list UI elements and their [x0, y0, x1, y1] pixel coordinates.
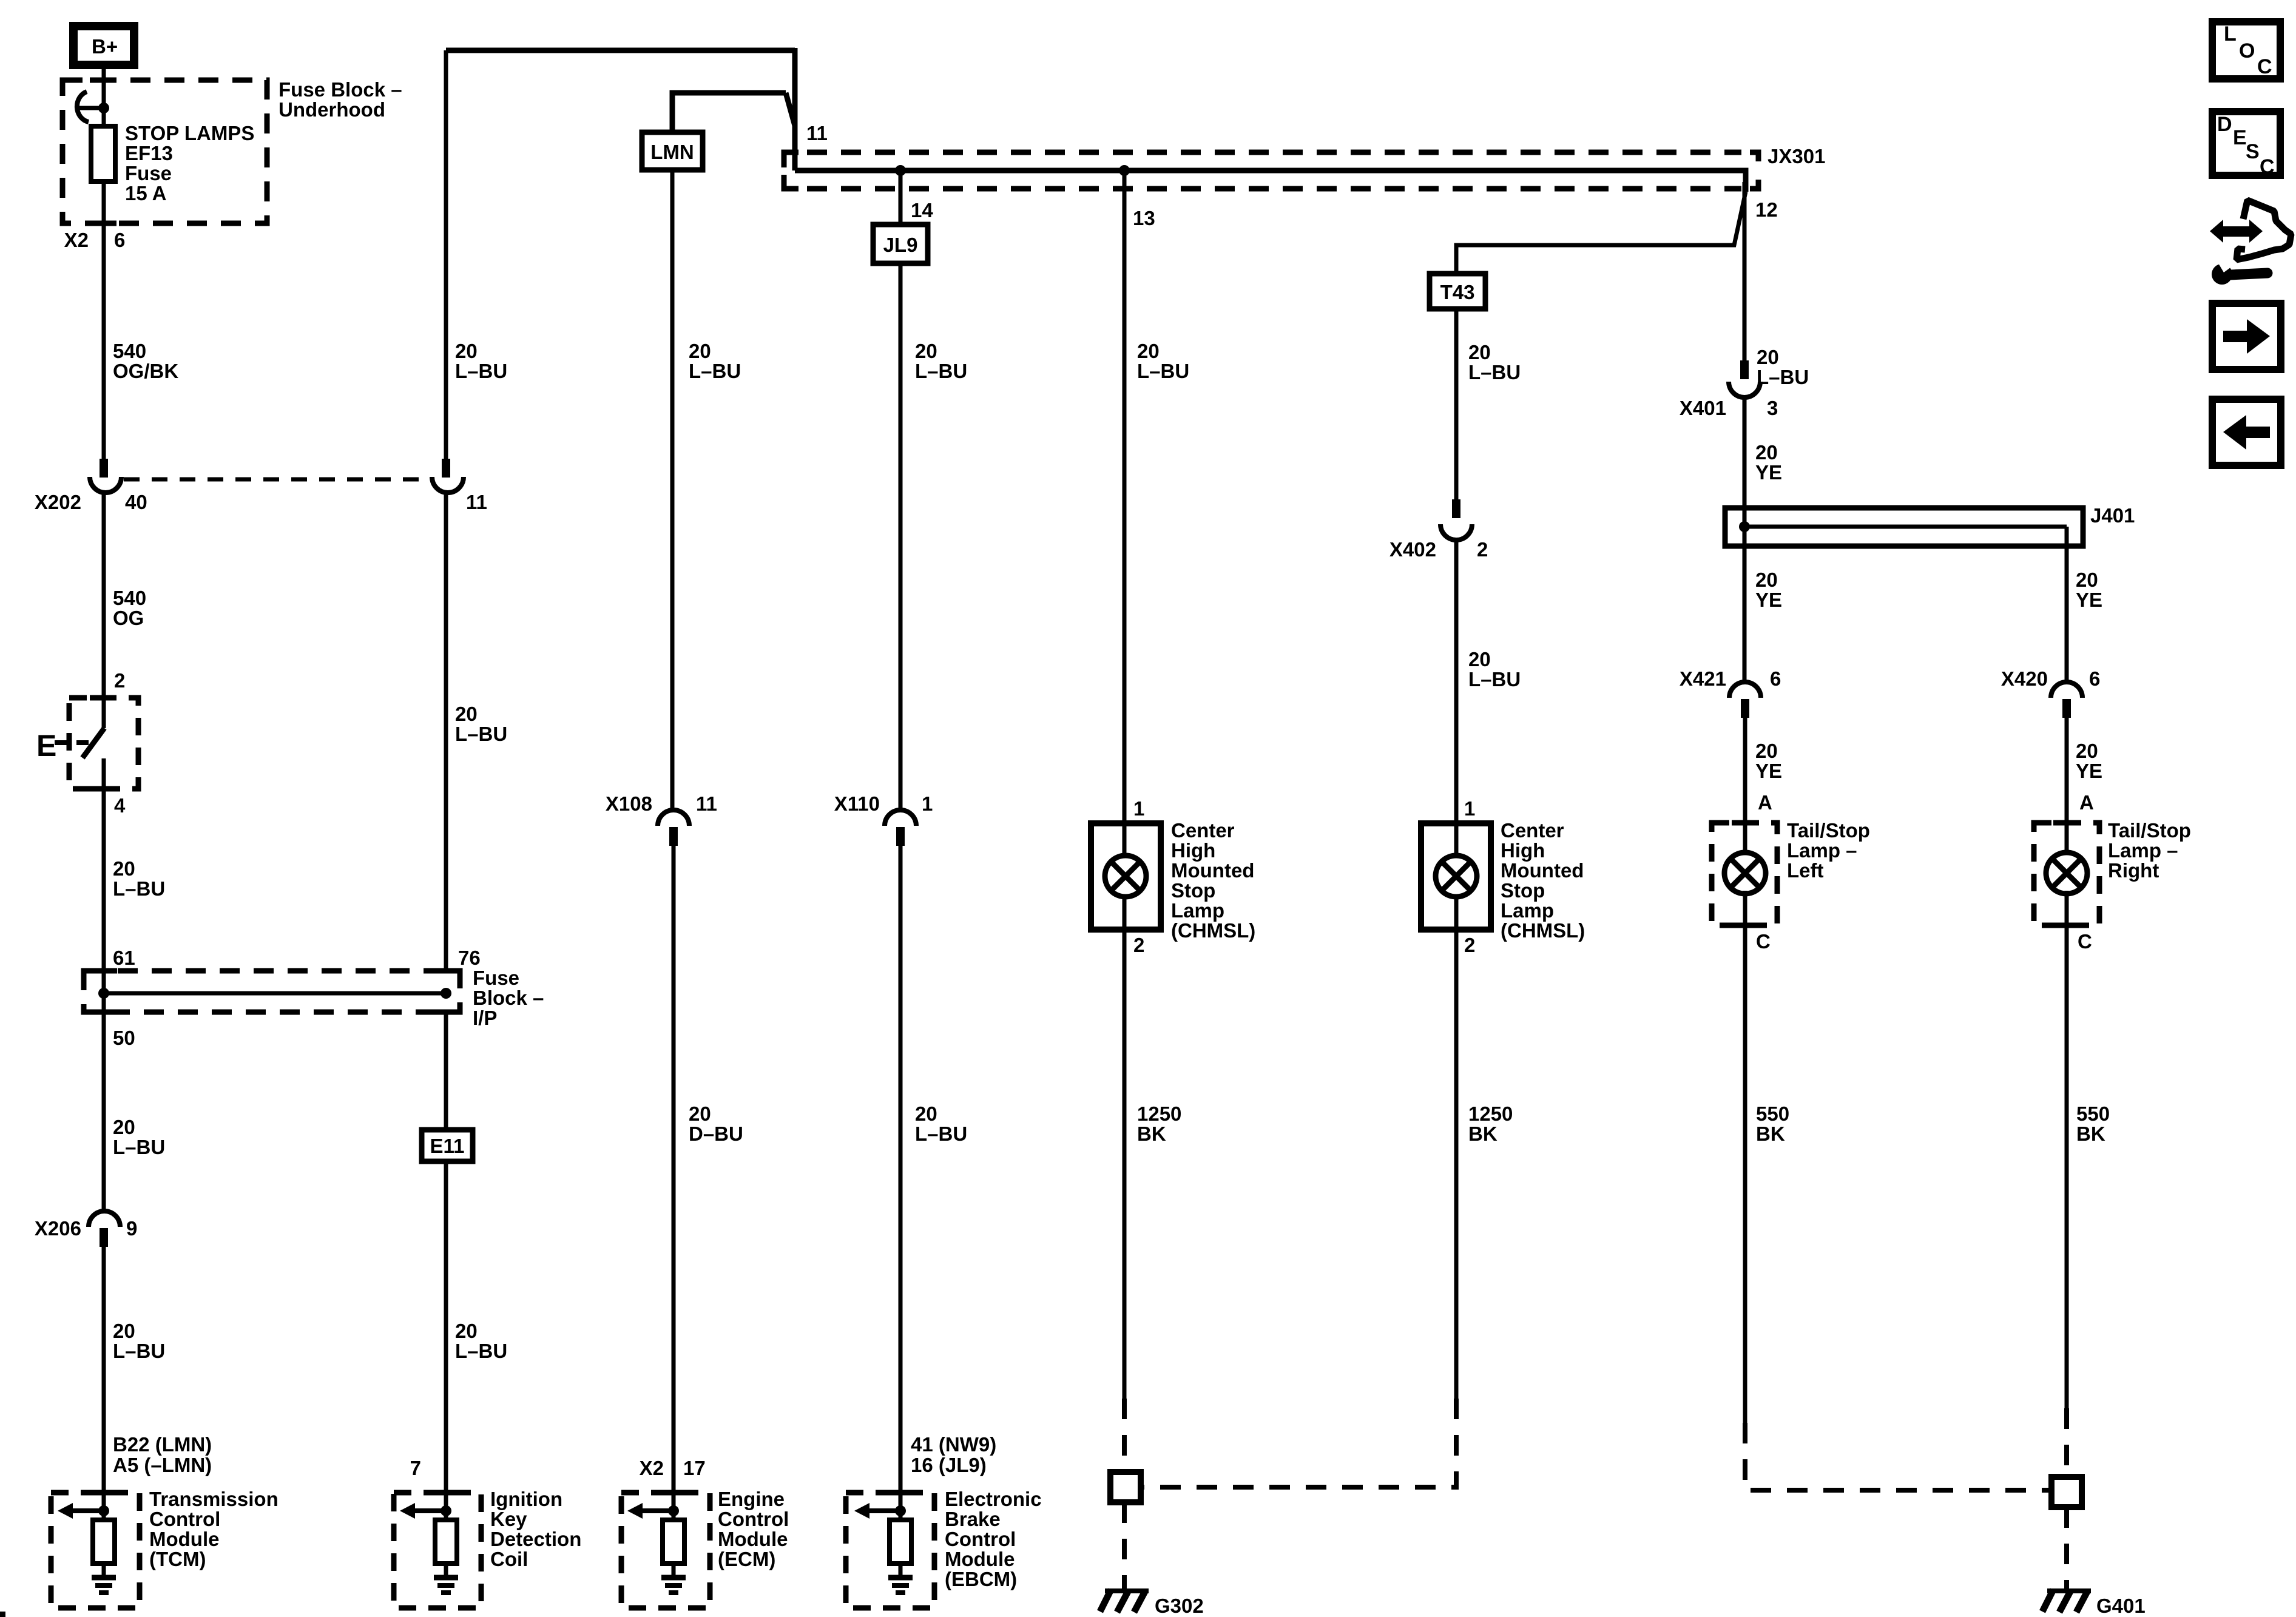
svg-text:15 A: 15 A — [125, 182, 166, 204]
dashed ground lead below G302 — [1122, 1502, 1127, 1592]
wire through CHMSL right — [1454, 823, 1459, 930]
svg-text:YE: YE — [2076, 760, 2102, 782]
svg-text:20: 20 — [1137, 340, 1160, 362]
svg-text:X110: X110 — [834, 792, 880, 815]
svg-text:C: C — [1756, 930, 1771, 953]
svg-text:20: 20 — [1468, 341, 1491, 363]
svg-text:Electronic: Electronic — [945, 1488, 1042, 1510]
svg-text:(EBCM): (EBCM) — [945, 1568, 1017, 1590]
svg-text:Lamp –: Lamp – — [2108, 839, 2178, 862]
svg-text:X402: X402 — [1389, 538, 1436, 561]
TCM input arrow — [58, 1503, 104, 1519]
wire w1 through I/P — [102, 971, 106, 1012]
svg-text:(CHMSL): (CHMSL) — [1171, 919, 1255, 942]
resistor EBCM — [890, 1511, 911, 1576]
svg-text:B+: B+ — [92, 35, 118, 58]
wire bus corner down into JX301 — [792, 48, 798, 170]
svg-text:Module: Module — [945, 1548, 1015, 1570]
svg-text:I/P: I/P — [473, 1007, 497, 1029]
wire I/P to X206 — [102, 1012, 106, 1212]
coil input arrow — [400, 1503, 446, 1519]
svg-text:Mounted: Mounted — [1501, 859, 1584, 882]
svg-text:6: 6 — [1770, 667, 1781, 690]
wire X110 to EBCM — [899, 846, 903, 1511]
svg-text:1250: 1250 — [1137, 1102, 1181, 1125]
node on B+ wire — [98, 103, 109, 113]
connector JL9 — [873, 224, 928, 263]
svg-text:JX301: JX301 — [1768, 145, 1825, 167]
ECM input arrow — [627, 1503, 674, 1519]
svg-text:20: 20 — [915, 340, 937, 362]
svg-text:L–BU: L–BU — [113, 877, 165, 900]
svg-text:JL9: JL9 — [883, 234, 918, 256]
svg-text:20: 20 — [1757, 346, 1779, 368]
svg-text:Coil: Coil — [490, 1548, 528, 1570]
svg-text:X421: X421 — [1680, 667, 1726, 690]
svg-text:50: 50 — [113, 1027, 135, 1049]
svg-text:Ignition: Ignition — [490, 1488, 562, 1510]
svg-text:540: 540 — [113, 587, 146, 609]
lamp CHMSL left — [1105, 856, 1146, 897]
svg-text:A5 (–LMN): A5 (–LMN) — [113, 1454, 212, 1476]
svg-text:E11: E11 — [430, 1135, 465, 1157]
svg-text:Mounted: Mounted — [1171, 859, 1254, 882]
switch blade — [83, 728, 104, 758]
svg-text:11: 11 — [806, 122, 828, 144]
svg-text:High: High — [1501, 839, 1545, 862]
wire X108 to ECM — [672, 846, 676, 1511]
svg-text:20: 20 — [1755, 569, 1778, 591]
svg-text:X401: X401 — [1680, 397, 1726, 419]
svg-text:12: 12 — [1755, 198, 1778, 221]
svg-text:17: 17 — [683, 1457, 706, 1479]
svg-text:Key: Key — [490, 1508, 527, 1530]
svg-text:20: 20 — [2076, 740, 2098, 762]
svg-text:G401: G401 — [2096, 1595, 2146, 1617]
svg-text:X420: X420 — [2001, 667, 2048, 690]
svg-text:61: 61 — [113, 947, 135, 969]
svg-text:Brake: Brake — [945, 1508, 1001, 1530]
connector X401 pin 3 — [1729, 360, 1760, 397]
connector X108 pin 11 — [658, 810, 689, 846]
svg-text:A: A — [2079, 791, 2094, 814]
connector X110 pin 1 — [885, 810, 916, 846]
svg-text:20: 20 — [1755, 441, 1778, 464]
dashed connector line X202 row — [124, 478, 431, 482]
wire JL9 to X110 — [899, 263, 903, 811]
wire fuse to X202 — [102, 181, 106, 460]
svg-text:S: S — [2246, 140, 2260, 163]
svg-text:20: 20 — [113, 1116, 135, 1138]
svg-text:OG: OG — [113, 607, 144, 629]
svg-text:Fuse: Fuse — [473, 967, 519, 989]
node 76 — [441, 988, 451, 999]
EBCM dashed box — [846, 1493, 934, 1608]
svg-text:20: 20 — [1755, 740, 1778, 762]
svg-text:X2: X2 — [640, 1457, 664, 1479]
wire X421 to tail lamp left — [1743, 718, 1747, 856]
wire slant into bus corner — [786, 93, 795, 126]
svg-text:YE: YE — [1755, 589, 1782, 611]
Fuse Block - I/P dashed box — [84, 971, 460, 1012]
Ignition Key Detection Coil dashed box — [394, 1493, 481, 1608]
wire top bus horizontal — [446, 48, 795, 53]
svg-text:L–BU: L–BU — [455, 1340, 507, 1362]
svg-text:X108: X108 — [606, 792, 652, 815]
node JX301 pin 14 — [895, 165, 906, 176]
ground splice box G401 — [2051, 1477, 2082, 1507]
icon left arrow box — [2212, 399, 2281, 465]
connector T43 — [1430, 274, 1485, 309]
svg-text:76: 76 — [458, 947, 481, 969]
wire through CHMSL left — [1123, 823, 1127, 930]
svg-text:2: 2 — [114, 669, 125, 692]
svg-text:14: 14 — [911, 199, 933, 221]
svg-text:Left: Left — [1787, 859, 1824, 882]
svg-text:BK: BK — [1756, 1122, 1785, 1145]
svg-text:Control: Control — [945, 1528, 1016, 1550]
svg-text:L–BU: L–BU — [455, 360, 507, 382]
dashed ground lead right CHMSL — [1144, 1399, 1456, 1487]
harness JX301 dashed box — [784, 152, 1758, 189]
icon service wrench — [2212, 257, 2267, 285]
node TCM — [98, 1505, 109, 1516]
wire w8 J401 to X420 — [2065, 546, 2069, 683]
svg-text:L–BU: L–BU — [915, 1122, 967, 1145]
svg-text:20: 20 — [455, 340, 478, 362]
svg-text:E: E — [2233, 126, 2247, 149]
ground G401 — [2042, 1590, 2091, 1612]
svg-text:Stop: Stop — [1501, 879, 1545, 902]
power feed B+ — [73, 26, 134, 65]
wire I/P to E11 — [444, 1012, 448, 1130]
svg-text:J401: J401 — [2090, 504, 2135, 527]
svg-text:Lamp: Lamp — [1501, 899, 1554, 922]
svg-text:20: 20 — [455, 703, 478, 725]
tail/stop lamp right dashed box — [2034, 823, 2099, 925]
wire hook to node — [78, 106, 104, 110]
svg-text:Module: Module — [718, 1528, 788, 1550]
svg-text:20: 20 — [915, 1102, 937, 1125]
node 61 — [98, 988, 109, 999]
wire CHMSL left to ground run — [1123, 930, 1127, 1399]
svg-text:Fuse Block –: Fuse Block – — [279, 78, 402, 101]
svg-text:STOP LAMPS: STOP LAMPS — [125, 122, 254, 144]
svg-text:Transmission: Transmission — [149, 1488, 279, 1510]
node coil — [441, 1505, 451, 1516]
svg-text:540: 540 — [113, 340, 146, 362]
svg-text:L–BU: L–BU — [113, 1136, 165, 1158]
node ECM — [668, 1505, 679, 1516]
resistor TCM — [93, 1511, 115, 1576]
svg-text:Right: Right — [2108, 859, 2159, 882]
svg-text:13: 13 — [1133, 207, 1155, 229]
svg-text:L–BU: L–BU — [1757, 366, 1809, 388]
bus bar hook — [77, 92, 89, 122]
svg-text:G302: G302 — [1155, 1595, 1204, 1617]
svg-text:11: 11 — [696, 792, 717, 815]
wire B+ to fuse block — [102, 69, 106, 126]
svg-text:20: 20 — [689, 340, 711, 362]
dashed ground lead left CHMSL — [1122, 1399, 1127, 1472]
wire w5 down from JX301 — [1123, 170, 1127, 823]
wire T43 to X402 — [1454, 309, 1459, 501]
svg-text:Detection: Detection — [490, 1528, 581, 1550]
svg-text:16 (JL9): 16 (JL9) — [911, 1454, 987, 1476]
wire LMN branch top — [672, 93, 786, 132]
svg-text:OG/BK: OG/BK — [113, 360, 178, 382]
wire w4 down from JX301 — [899, 170, 903, 224]
svg-text:6: 6 — [114, 229, 125, 251]
connector X421 pin 6 — [1729, 682, 1761, 718]
Fuse Block - Underhood dashed box — [62, 80, 267, 223]
svg-text:Tail/Stop: Tail/Stop — [1787, 819, 1870, 842]
ground TCM internal — [92, 1578, 116, 1593]
svg-text:550: 550 — [1756, 1102, 1789, 1125]
svg-text:2: 2 — [1477, 538, 1488, 561]
svg-text:(TCM): (TCM) — [149, 1548, 206, 1570]
svg-text:L–BU: L–BU — [455, 723, 507, 745]
svg-text:3: 3 — [1767, 397, 1778, 419]
svg-text:O: O — [2239, 39, 2255, 62]
svg-text:20: 20 — [689, 1102, 711, 1125]
icon DESC box — [2212, 112, 2280, 178]
wire inside JX301 — [795, 170, 1746, 192]
svg-text:41 (NW9): 41 (NW9) — [911, 1433, 996, 1456]
svg-text:(ECM): (ECM) — [718, 1548, 775, 1570]
connector X420 pin 6 — [2051, 682, 2082, 718]
svg-text:LMN: LMN — [650, 141, 694, 163]
wire w2 top corner down to connector 11 — [444, 50, 448, 460]
wire tail lamp right down — [2065, 891, 2069, 1408]
splice pack J401 — [1725, 508, 2083, 546]
svg-text:YE: YE — [1755, 461, 1782, 484]
wire CHMSL right to ground run — [1454, 930, 1459, 1399]
node JX301 pin 13 — [1119, 165, 1130, 176]
svg-text:4: 4 — [114, 794, 126, 817]
svg-text:Center: Center — [1171, 819, 1235, 842]
lamp tail/stop right — [2046, 852, 2087, 894]
svg-text:YE: YE — [1755, 760, 1782, 782]
lamp tail/stop left — [1724, 852, 1766, 894]
svg-text:YE: YE — [2076, 589, 2102, 611]
TCM dashed box — [51, 1493, 140, 1608]
svg-text:20: 20 — [113, 857, 135, 880]
stop lamp switch dashed box — [69, 698, 138, 789]
svg-text:BK: BK — [1137, 1122, 1166, 1145]
connector X206 pin 9 — [89, 1211, 120, 1247]
svg-text:L–BU: L–BU — [1137, 360, 1189, 382]
svg-text:7: 7 — [410, 1457, 421, 1479]
svg-text:L–BU: L–BU — [689, 360, 741, 382]
lamp CHMSL right — [1436, 856, 1477, 897]
svg-text:D–BU: D–BU — [689, 1122, 743, 1145]
svg-text:1: 1 — [1464, 797, 1475, 820]
svg-text:Underhood: Underhood — [279, 98, 385, 121]
svg-text:D: D — [2217, 113, 2232, 136]
tail/stop lamp left dashed box — [1712, 823, 1777, 925]
wire inside fuse block I/P — [104, 991, 446, 996]
svg-text:Engine: Engine — [718, 1488, 785, 1510]
svg-text:BK: BK — [1468, 1122, 1497, 1145]
resistor coil — [435, 1511, 457, 1576]
svg-text:20: 20 — [1468, 648, 1491, 670]
svg-text:L–BU: L–BU — [1468, 668, 1521, 690]
ground splice box G302 — [1110, 1472, 1141, 1502]
svg-text:20: 20 — [113, 1320, 135, 1342]
svg-text:High: High — [1171, 839, 1215, 862]
svg-text:Center: Center — [1501, 819, 1564, 842]
wire E11 to coil — [444, 1161, 448, 1511]
connector X202 pin 40 — [90, 459, 121, 493]
svg-text:X2: X2 — [64, 229, 89, 251]
svg-text:X202: X202 — [35, 491, 81, 513]
connector pin 11 (X202 row) — [432, 459, 464, 493]
svg-text:L–BU: L–BU — [1468, 361, 1521, 383]
svg-text:550: 550 — [2076, 1102, 2110, 1125]
svg-text:Lamp –: Lamp – — [1787, 839, 1857, 862]
svg-text:1250: 1250 — [1468, 1102, 1513, 1125]
icon service double arrow — [2210, 220, 2263, 243]
svg-text:20: 20 — [2076, 569, 2098, 591]
svg-text:9: 9 — [126, 1217, 137, 1240]
wire connector 11 to I/P — [444, 493, 448, 971]
dashed ground lead left tail lamp — [1745, 1423, 2051, 1490]
svg-text:B22 (LMN): B22 (LMN) — [113, 1433, 212, 1456]
ground coil internal — [434, 1578, 458, 1593]
svg-text:L–BU: L–BU — [113, 1340, 165, 1362]
svg-text:X206: X206 — [35, 1217, 81, 1240]
connector X402 pin 2 — [1440, 499, 1472, 540]
svg-text:2: 2 — [1464, 934, 1475, 956]
wire tail lamp left down — [1743, 891, 1747, 1423]
svg-text:BK: BK — [2076, 1122, 2105, 1145]
wire w7 JX301 to X401 — [1743, 182, 1747, 360]
CHMSL right lamp box — [1421, 823, 1491, 930]
svg-text:E: E — [36, 729, 56, 763]
wire LMN to X108 — [670, 170, 675, 811]
svg-text:Control: Control — [149, 1508, 220, 1530]
ground G302 — [1100, 1590, 1149, 1612]
wire X401 to J401 — [1743, 397, 1747, 508]
svg-text:L–BU: L–BU — [915, 360, 967, 382]
node EBCM — [895, 1505, 906, 1516]
ECM dashed box — [621, 1493, 710, 1608]
svg-text:C: C — [2078, 930, 2092, 953]
svg-text:Module: Module — [149, 1528, 219, 1550]
svg-text:20: 20 — [455, 1320, 478, 1342]
wire X402 to CHMSL right — [1454, 540, 1459, 823]
svg-text:C: C — [2257, 55, 2272, 78]
connector E11 — [422, 1130, 473, 1161]
icon LOC box — [2212, 22, 2280, 79]
svg-text:Block –: Block – — [473, 987, 544, 1009]
svg-text:C: C — [2260, 155, 2275, 178]
svg-text:L: L — [2224, 22, 2237, 46]
svg-text:Control: Control — [718, 1508, 789, 1530]
svg-text:1: 1 — [1133, 797, 1144, 820]
svg-text:1: 1 — [922, 792, 933, 815]
svg-text:Tail/Stop: Tail/Stop — [2108, 819, 2191, 842]
fuse EF13 — [91, 126, 115, 181]
wire X206 to TCM — [102, 1247, 106, 1511]
svg-text:(CHMSL): (CHMSL) — [1501, 919, 1585, 942]
ground EBCM internal — [888, 1578, 913, 1593]
svg-text:11: 11 — [466, 491, 487, 513]
ground ECM internal — [661, 1578, 686, 1593]
wire X202 to switch — [102, 493, 106, 728]
page artifact dot — [0, 1612, 5, 1617]
svg-text:EF13: EF13 — [125, 142, 173, 164]
svg-text:A: A — [1758, 791, 1772, 814]
icon right arrow box — [2212, 303, 2281, 370]
wire switch lower contact — [102, 758, 106, 971]
wire branch to T43 — [1456, 192, 1746, 274]
CHMSL left lamp box — [1091, 823, 1161, 930]
svg-text:Lamp: Lamp — [1171, 899, 1224, 922]
svg-text:40: 40 — [125, 491, 147, 513]
connector LMN — [642, 132, 703, 170]
svg-text:2: 2 — [1133, 934, 1144, 956]
icon service part outline — [2237, 200, 2291, 260]
dashed ground lead below G401 — [2064, 1507, 2069, 1590]
svg-text:Stop: Stop — [1171, 879, 1215, 902]
svg-text:T43: T43 — [1440, 281, 1475, 303]
resistor ECM — [663, 1511, 684, 1576]
wire J401 to X421 — [1743, 546, 1747, 683]
dashed line E to switch — [55, 740, 97, 745]
wire X420 to tail lamp right — [2065, 718, 2069, 856]
dashed ground lead right tail lamp — [2064, 1408, 2069, 1477]
svg-text:6: 6 — [2089, 667, 2100, 690]
svg-text:Fuse: Fuse — [125, 162, 172, 184]
EBCM input arrow — [854, 1503, 900, 1519]
